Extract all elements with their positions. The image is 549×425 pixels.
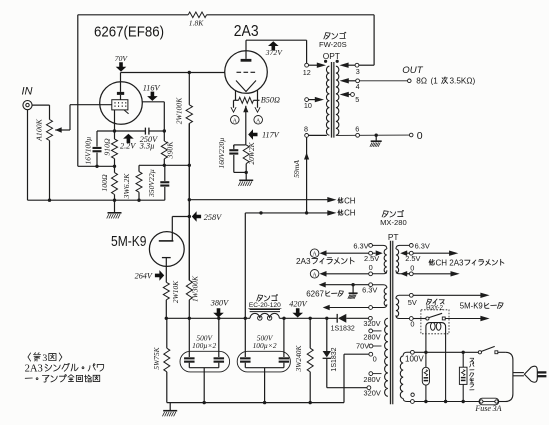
terminal A left [231,116,240,125]
label 他CH upper [338,198,343,204]
input jack J1 [23,101,32,110]
svg-text:390K: 390K [166,141,175,160]
svg-text:258V: 258V [204,213,222,222]
wire jack to volume pot [32,104,49,106]
wire diode2 to 320V bottom [327,387,367,389]
tube V3 cathode [162,257,171,259]
svg-text:2W100K: 2W100K [174,97,183,125]
PT winding 6267 heater [373,285,387,288]
voltage arrow 116V [147,92,158,101]
spark killer box [459,367,467,384]
5M-K9 plate connection [171,217,173,241]
voltage arrow 372V [268,41,279,50]
pilot lamp capsule [422,367,429,385]
svg-text:100µ×2: 100µ×2 [253,341,277,350]
rectifier diode 1S1832 horizontal [338,314,346,323]
svg-text:100Ω: 100Ω [100,174,109,192]
svg-text:280V: 280V [363,375,380,384]
voltage arrow 264V [155,270,164,281]
svg-text:10: 10 [304,101,312,110]
svg-text:3.5KΩ): 3.5KΩ) [450,77,476,86]
PT terminal 6.3V right [409,244,413,248]
resistor 5W75K bleeder [166,318,168,348]
PT winding 2A3 filament this channel [373,245,387,249]
svg-text:B50Ω: B50Ω [261,96,280,105]
terminal 100V top [411,350,415,354]
hum pot B50ohm [234,99,239,101]
voltage arrow 2.2V [123,134,134,143]
svg-text:8: 8 [304,125,308,134]
rectifier diode 1S1832 vertical [326,318,328,351]
resistor 3W240K bleeder [309,318,311,348]
voltage arrow 117V [248,129,257,140]
wire V2 plate to OPT pin12 [245,40,247,59]
tube V2 2A3 envelope [225,51,268,94]
tube V3 5M-K9 envelope [149,232,184,267]
wire V1 cathode [114,110,116,139]
OPT pin 6 wire to 0 terminal [336,134,409,136]
svg-text:6.3V: 6.3V [362,286,377,295]
svg-text:1S1832: 1S1832 [331,347,338,371]
PT HV terminal 280V [369,329,373,333]
svg-text:2A3: 2A3 [296,257,311,266]
relay contact line 0 [409,317,413,321]
PT HV terminal 0 center tap [369,352,373,356]
PT HV winding [385,318,388,396]
PT core [390,241,392,404]
label 他CH lower [338,210,343,216]
svg-text:5: 5 [355,95,359,104]
PT HV terminal 320V bottom [367,386,371,390]
6267 heater bottom line [323,305,330,311]
svg-text:4: 4 [356,82,360,91]
svg-text:264V: 264V [135,271,153,280]
caption line3 [25,377,32,379]
svg-text:6: 6 [355,125,359,134]
svg-text:2A3: 2A3 [234,23,259,40]
svg-text:0: 0 [410,264,414,273]
svg-text:20W2K: 20W2K [247,141,256,164]
svg-text:5M-K9: 5M-K9 [111,233,147,250]
svg-text:3.3µ: 3.3µ [139,142,155,151]
wire V1 screen [142,101,164,103]
label other channel 2A3 filament [429,259,434,265]
resistor 1.8K feedback [78,14,188,16]
wire OPT pin8 B+ with 59mA [306,137,308,213]
resistor 100ohm [112,173,118,195]
ground 2A3 bias [245,172,247,180]
svg-text:MX-280: MX-280 [380,218,407,227]
svg-text:160V220µ: 160V220µ [217,138,226,169]
ground bus bottom [167,402,344,404]
label TANGO FW-20S OPT [324,33,330,39]
svg-text:OUT: OUT [402,65,423,76]
tube V1 plate cap [117,92,124,95]
wire jack ground drop [27,110,29,201]
OPT pin 4 to output [340,78,349,83]
5V line [409,293,413,297]
voltage arrow 70V [116,62,127,71]
mains switch [478,351,481,354]
primary bottom wire [414,401,479,403]
tube V1 cathode tick [124,110,129,114]
svg-text:2A3: 2A3 [25,363,43,374]
OPT phase dots [324,60,327,63]
svg-text:117V: 117V [262,131,280,140]
svg-text:100µ×2: 100µ×2 [192,341,216,350]
label spark killer [470,390,472,392]
svg-text:IN: IN [22,86,33,98]
PT HV terminal 320V top [369,316,373,320]
svg-text:5M-K9: 5M-K9 [460,302,483,311]
resistor 390K [161,141,167,159]
OPT pin 3 [355,63,359,67]
svg-text:350V22µ: 350V22µ [147,169,156,198]
resistor 910ohm [112,139,118,159]
svg-text:0: 0 [373,355,377,364]
filter cap can 2 500V100ux2 [237,351,290,372]
resistor 20W2K bias [243,145,249,164]
PT winding 100V primary [403,352,410,355]
terminal 100V bottom taps [411,393,414,396]
svg-text:A: A [312,272,317,278]
ground stub and ground symbol [114,200,116,213]
resistor 1W300K [186,280,192,300]
svg-text:Fuse: Fuse [474,404,491,413]
bus after choke [279,317,336,319]
B+ bus 420V [166,317,250,319]
svg-text:8Ω: 8Ω [416,77,427,86]
right 2.5V line [400,250,407,256]
svg-text:3: 3 [42,353,47,364]
primary top wire [414,351,478,353]
svg-text:372V: 372V [265,48,283,57]
OPT primary winding [326,66,329,135]
svg-text:1.8K: 1.8K [189,19,204,28]
svg-text:3W240K: 3W240K [294,344,303,372]
ground bus first stage [28,199,165,201]
tube V2 grid dashes [237,71,242,73]
svg-text:16V100µ: 16V100µ [83,137,92,165]
svg-text:A: A [256,118,261,124]
filament legs [235,90,237,100]
svg-text:CH: CH [344,208,356,217]
mains cord and plug [505,352,513,401]
feedback wire from OPT via top [77,15,79,167]
tube V2 filament V [236,81,256,92]
wire B+ 258V vertical [188,123,190,280]
OPT pin 12 [305,63,309,67]
cathode return wiper arrow [243,106,248,113]
svg-text:6.3V: 6.3V [353,241,368,250]
relay coil legs [425,344,427,352]
svg-text:2.5V: 2.5V [405,254,420,263]
PT winding 5V [396,295,410,298]
wire pot bottom to ground bus [49,141,51,201]
PT 0 line to A [310,270,319,279]
svg-text:12: 12 [303,68,311,77]
PT terminal 6.3V left top [369,244,373,248]
svg-text:H3Y-2: H3Y-2 [426,305,444,312]
capacitor 16V100u cathode bypass [96,131,98,147]
relay coil [426,323,446,344]
svg-text:A: A [233,118,238,124]
svg-text:1W300K: 1W300K [191,275,200,302]
terminal A right [254,116,263,125]
svg-text:0: 0 [369,263,373,272]
OPT secondary winding [336,66,339,135]
svg-text:3W6.2K: 3W6.2K [122,173,131,200]
screen divider node wire [139,164,189,166]
tube V1 6267(EF86) envelope [100,82,143,125]
svg-text:320V: 320V [363,319,380,328]
resistor 2W100K plate load [188,73,190,105]
wire to bias network [234,144,246,146]
filament supply arrows to A [233,100,235,108]
svg-text:FW-20S: FW-20S [319,40,347,49]
other channel feed 258V [188,198,191,201]
svg-text:6267: 6267 [306,289,324,298]
PT HV terminal 280V lower [369,372,373,376]
relay contact switch [413,318,426,320]
OPT pin 10 [305,98,309,102]
svg-text:70V: 70V [356,342,369,351]
svg-text:A100K: A100K [35,118,44,141]
svg-text:(1: (1 [431,77,439,86]
svg-text:3: 3 [356,67,360,76]
svg-text:70V: 70V [115,54,129,63]
voltage arrow 420V [292,308,303,317]
wire wiper to grid [69,105,71,130]
svg-text:116V: 116V [143,84,161,93]
6267 heater top line [319,282,326,288]
OPT pin 5 [340,92,349,97]
capacitor 250V 3.3u coupling [144,128,146,135]
svg-text:910Ω: 910Ω [102,138,111,156]
svg-text:6.3V: 6.3V [415,241,430,250]
capacitor 160V220u [229,149,238,151]
svg-text:380V: 380V [210,298,229,307]
filter cap can 1 500V100ux2 [180,351,230,372]
svg-text:OPT: OPT [323,51,340,61]
svg-text:1S1832: 1S1832 [331,326,355,333]
PT winding other channel filament [396,245,410,249]
label TANGO MX-280 PT [382,211,388,217]
capacitor 350V22u [164,165,166,181]
svg-text:2.5V: 2.5V [364,254,379,263]
svg-text:280V: 280V [363,332,380,341]
pot wiper arrow [55,127,62,133]
wire V1 plate to 2A3 grid [120,73,122,92]
svg-text:PT: PT [388,232,399,242]
svg-text:CH: CH [344,196,356,205]
svg-text:2W10K: 2W10K [171,280,180,303]
svg-text:2.2V: 2.2V [120,142,136,151]
wire HV center tap to ground [344,353,369,355]
tube V2 plate bar [241,59,252,62]
PT HV terminal 70V [369,344,373,348]
fuse [480,400,483,403]
svg-text:320V: 320V [364,388,381,397]
svg-text:5W75K: 5W75K [152,346,161,369]
svg-text:3A: 3A [492,404,502,413]
OPT core [331,62,334,138]
svg-text:0: 0 [410,320,414,329]
svg-text:A: A [312,252,317,258]
relay dashed box H3Y-2 [421,310,449,334]
svg-text:420V: 420V [289,300,307,309]
svg-text:59mA: 59mA [292,160,301,178]
svg-text:CH 2A3: CH 2A3 [435,258,464,267]
svg-text:5V: 5V [408,298,417,307]
voltage arrow 258V [192,211,201,222]
potentiometer A100K [47,120,53,141]
tube V3 plate bar [159,240,174,242]
wire cathode bypass branch [97,130,145,132]
choke TANGO EC-20-120 [250,313,279,318]
svg-text:6267(EF86): 6267(EF86) [94,24,164,41]
svg-text:0: 0 [417,130,423,142]
resistor 2W10K [163,282,169,300]
voltage arrow 380V [213,308,224,317]
tube V1 grid box [112,100,128,110]
ground symbol main [169,403,171,411]
caption line1 dai-3-zu [28,353,31,361]
right 0 line [400,271,407,277]
PT 2.5V line to A [310,249,319,258]
timer relay label [426,299,431,304]
resistor 3W6.2K [138,165,140,171]
svg-text:100V: 100V [405,355,424,364]
wire pot top [49,105,51,119]
wire 420V riser to other channel bus [244,213,246,318]
